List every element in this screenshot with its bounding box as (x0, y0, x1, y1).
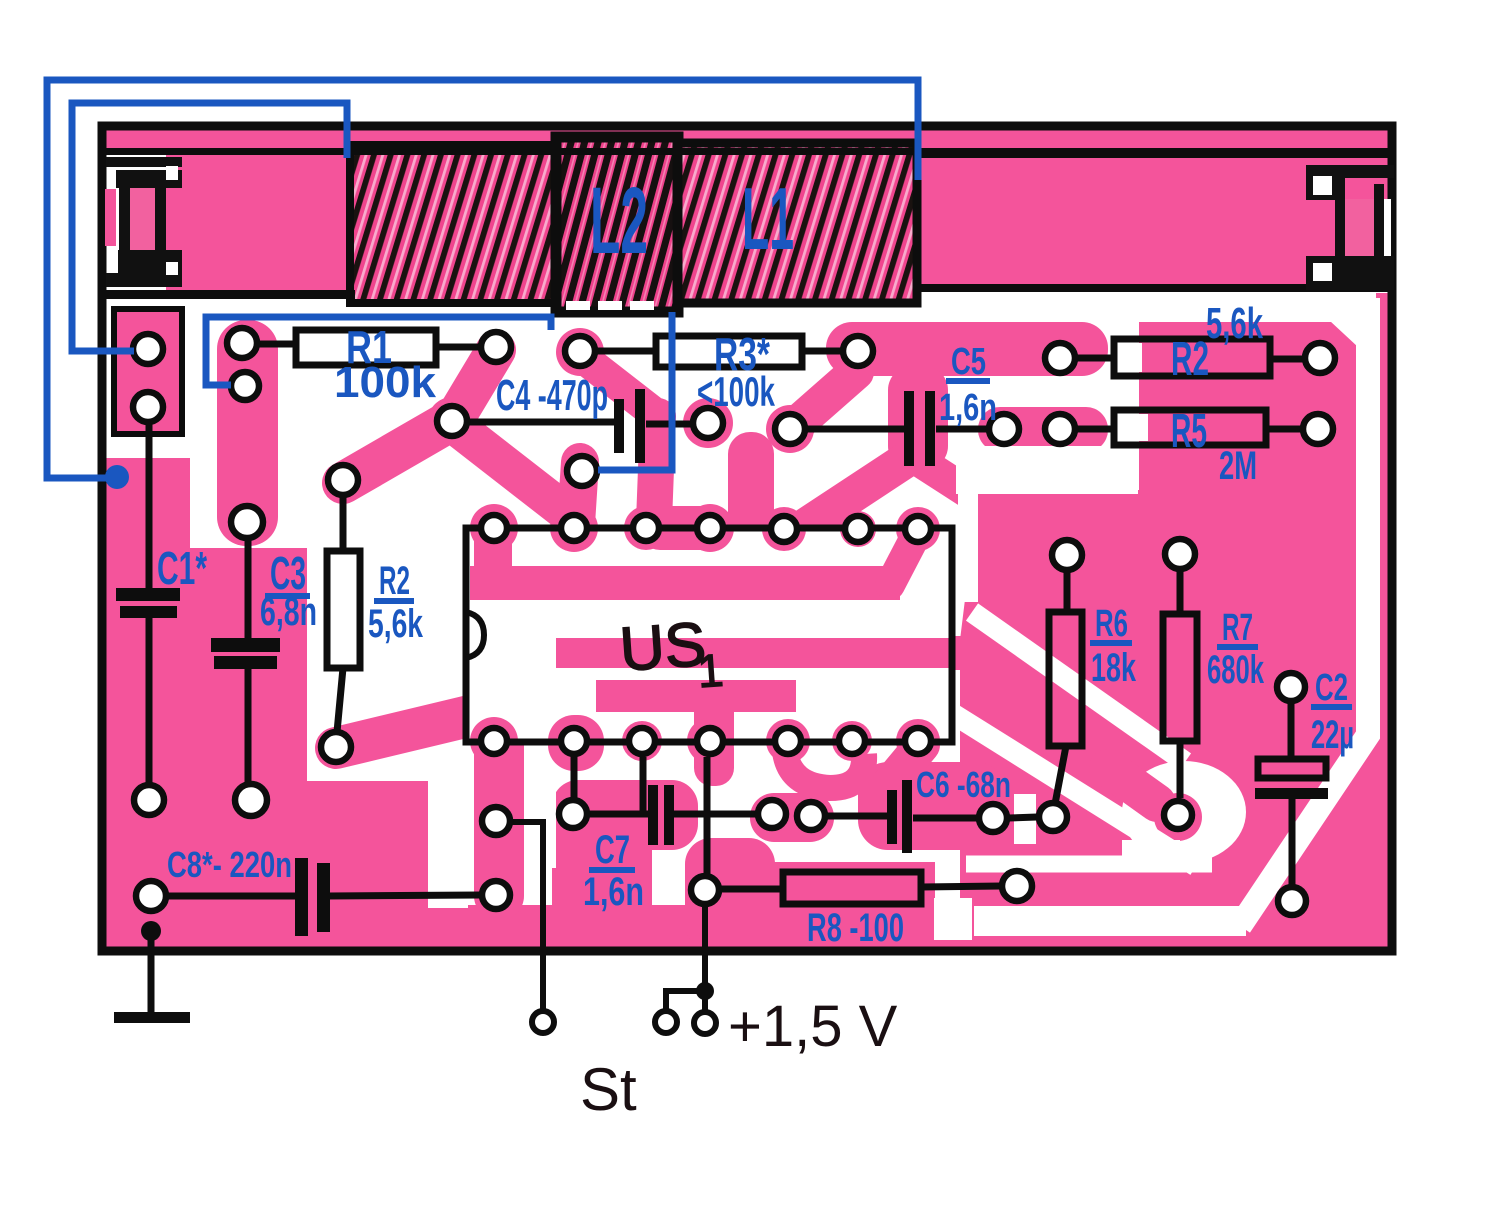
top pink strip (104, 130, 1390, 149)
white dashes at L2 bottom (566, 301, 590, 310)
left clamp (106, 157, 182, 167)
white gap right of column (524, 765, 556, 868)
svg-text:R8 -100: R8 -100 (807, 906, 904, 950)
pad blobs top row (474, 540, 512, 572)
svg-text:+1,5 V: +1,5 V (728, 994, 898, 1059)
svg-text:18k: 18k (1091, 646, 1137, 690)
pad left of C5 (775, 414, 805, 444)
pad top of C2 (1277, 673, 1305, 701)
P25/P26 blob (750, 793, 834, 842)
node blue dot (105, 465, 129, 489)
P37 finger (968, 870, 1100, 912)
white channel left of P23 column (428, 781, 468, 908)
diagonal P19 to P12 (343, 420, 452, 483)
trace P12 down to T2 (458, 428, 566, 512)
pad bottom of R7 (1164, 801, 1192, 829)
components go here (114, 330, 1328, 1034)
coil hatch area A (350, 145, 556, 303)
right block upper (1139, 322, 1356, 500)
blue layer (47, 80, 918, 489)
P14 blob and diagonal into mass-top (766, 405, 814, 453)
wire B4 to R8 pad (704, 757, 711, 874)
IC inner pink band 1 (470, 566, 900, 600)
capacitor C3 (245, 536, 252, 785)
svg-text:R7: R7 (1222, 607, 1253, 649)
svg-text:C1*: C1* (157, 542, 207, 594)
IC bottom row pads (481, 728, 507, 754)
P12 P13 blobs (428, 397, 476, 445)
svg-text:680k: 680k (1207, 648, 1264, 692)
resistor R2 5,6k horizontal (1076, 358, 1304, 359)
svg-text:1: 1 (696, 644, 725, 698)
pad top of R7 (1165, 539, 1195, 569)
svg-text:2M: 2M (1219, 444, 1257, 488)
svg-text:St: St (580, 1056, 637, 1123)
pad top of C3 (231, 506, 263, 538)
pad right of R2h (1305, 343, 1335, 373)
pad bottom of C3 (235, 784, 267, 816)
resistor R6 (1055, 571, 1067, 804)
W4 channel (974, 906, 1246, 936)
wire L2 right down to pad (598, 312, 672, 470)
IC inner pink band 3 (596, 680, 796, 712)
right mid region (960, 640, 1390, 905)
pad bottom of R2v (321, 732, 351, 762)
W-upper channel (972, 612, 1185, 762)
band top line right (915, 150, 1390, 158)
capacitor C4 (469, 422, 693, 424)
antenna band solid right part (915, 156, 1390, 291)
svg-text:22µ: 22µ (1311, 713, 1354, 757)
W3 channel (966, 856, 1212, 873)
svg-text:C6 -68n: C6 -68n (916, 764, 1011, 805)
svg-text:R2: R2 (1171, 333, 1209, 386)
pad right of R1 (481, 332, 511, 362)
rod bottom line (106, 290, 355, 299)
svg-text:US: US (618, 610, 709, 685)
svg-text:1,6n: 1,6n (939, 387, 997, 429)
C7 blob (552, 780, 698, 850)
capacitor C2 (1291, 703, 1292, 885)
wire antenna outer loop (47, 80, 918, 478)
pads go here (133, 328, 1335, 915)
band exit patch (945, 636, 975, 670)
black line under top strip (104, 148, 1390, 155)
pad right of C7 (758, 800, 786, 828)
svg-text:R6: R6 (1095, 603, 1128, 645)
P23/P34/B1 column (474, 702, 524, 920)
wire antenna inner loop (72, 103, 347, 351)
stub under P13 (728, 432, 774, 544)
wire L2 left to R1 frame (206, 317, 551, 385)
right block lower (960, 490, 1356, 932)
pad top of R2v (328, 465, 358, 495)
resistor R5 (1076, 426, 1302, 433)
pad bottom of C1 (134, 785, 164, 815)
pad right of R8 (1002, 871, 1032, 901)
white notch above right block (956, 446, 1138, 494)
pad right of C6 (979, 804, 1007, 832)
pad left of C7 (559, 800, 587, 828)
ferrite rod solid left part (166, 155, 355, 295)
svg-text:1,6n: 1,6n (583, 870, 644, 914)
IC US1 body (466, 528, 952, 742)
pad right of C5 (989, 414, 1019, 444)
capacitor C5 (807, 426, 988, 433)
wire B3 down to C7 (640, 757, 647, 812)
L1 coil box (678, 143, 917, 303)
vertical bar pads P3/P4 down to P18 (217, 320, 278, 546)
IC inner pink band 2 (556, 638, 962, 668)
right edge channel (1240, 298, 1368, 926)
svg-text:R5: R5 (1171, 405, 1207, 458)
P36 column (685, 838, 775, 950)
pad right of C4 (693, 408, 723, 438)
white strip right of IC edge (958, 490, 978, 602)
svg-text:C5: C5 (951, 341, 986, 383)
pad below R1 left (231, 372, 259, 400)
svg-text:5,6k: 5,6k (368, 602, 424, 646)
svg-text:C4 -470p: C4 -470p (496, 371, 608, 420)
right edge strip (1376, 293, 1390, 950)
diagonal P20 to B1 area (336, 712, 486, 748)
C6 band (858, 762, 1006, 850)
capacitor C1* (146, 420, 153, 785)
pad left of R3 (565, 336, 595, 366)
pad left of C6 (797, 802, 825, 830)
svg-text:C8*- 220n: C8*- 220n (167, 844, 292, 885)
IC US1 outline (466, 528, 952, 742)
svg-text:L2: L2 (590, 168, 648, 274)
gap between P27 and P28 (1014, 794, 1036, 844)
IC notch (466, 612, 484, 658)
pad bottom of R6 (1039, 803, 1067, 831)
pad right of R5 (1303, 414, 1333, 444)
pad left of R1 (227, 328, 257, 358)
resistor R1 (259, 344, 480, 347)
mass top (R3 right to P8) (826, 322, 1108, 376)
ground (141, 921, 161, 941)
resistor R3* (596, 348, 842, 355)
capacitor C7 (590, 811, 756, 818)
svg-text:R2: R2 (379, 559, 410, 603)
board outline (102, 126, 1392, 951)
pad St node (482, 807, 510, 835)
IC top row pads (481, 515, 507, 541)
left big mass (104, 458, 428, 949)
resistor R8 (721, 886, 1001, 889)
resistor R7 (1177, 570, 1184, 798)
battery wires +1,5V (666, 906, 705, 1012)
pad bottom of C2 (1278, 887, 1306, 915)
pad left of R5 (1045, 414, 1075, 444)
svg-text:C7: C7 (595, 828, 630, 872)
pad P1 (133, 334, 163, 364)
pad left of R2h (1045, 343, 1075, 373)
band bottom line right (915, 284, 1390, 292)
W-lower channel (950, 712, 1196, 866)
pad left of C8 (136, 881, 166, 911)
white notch right of R8 block (934, 898, 972, 940)
chamfer on block corner (1330, 321, 1358, 347)
L2 coil box (556, 137, 678, 312)
wire P27 to P28 (1009, 817, 1037, 818)
bottom band (104, 905, 1390, 950)
C5 band (888, 366, 948, 470)
svg-text:6,8n: 6,8n (260, 590, 317, 634)
pad P2 (133, 392, 163, 422)
pad left of R8 (691, 876, 719, 904)
node blob P17 down to T2 (576, 462, 580, 524)
svg-text:C2: C2 (1315, 667, 1348, 709)
pad right of R3 (843, 336, 873, 366)
pad top of R6 (1052, 540, 1082, 570)
left pad rectangle (114, 309, 182, 434)
wire B2 to C7 pad (571, 757, 578, 798)
P6 blob with trace to T3 (556, 328, 604, 376)
pad blue-wire node (567, 456, 597, 486)
svg-text:<100k: <100k (697, 368, 775, 415)
resistor R2 5,6k vertical (337, 496, 343, 732)
pad blobs bottom row (470, 717, 518, 765)
svg-text:L1: L1 (742, 169, 794, 268)
St wire (512, 822, 543, 1010)
svg-text:5,6k: 5,6k (1206, 299, 1263, 348)
pad right of C8 (482, 881, 510, 909)
capacitor C6 (827, 816, 977, 818)
R8 block (770, 862, 935, 950)
right clamp (1306, 165, 1394, 178)
svg-text:100k: 100k (334, 358, 437, 407)
capacitor C8* (167, 895, 480, 896)
pad left of C4 (437, 406, 467, 436)
P15-P10 finger (978, 407, 1108, 452)
P5 to P12 diagonal (454, 350, 496, 420)
